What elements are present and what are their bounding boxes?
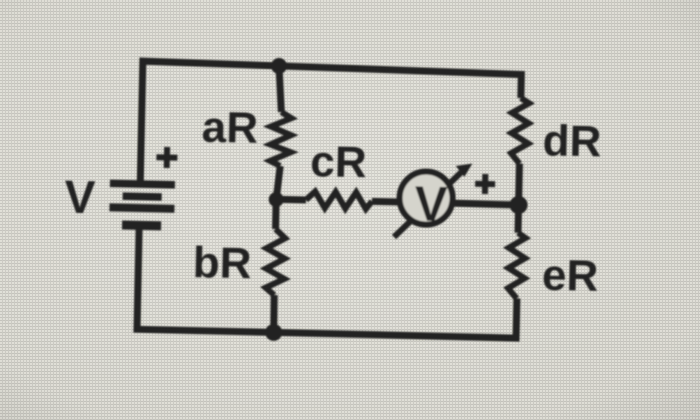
node top (middle branch / top wire junction) — [271, 58, 287, 74]
resistor eR — [508, 233, 526, 299]
svg-text:cR: cR — [310, 137, 367, 187]
wire bR to bottom — [273, 295, 274, 332]
wire cR to voltmeter — [372, 198, 399, 206]
svg-text:V: V — [64, 170, 96, 223]
resistor dR — [511, 98, 529, 164]
wire right node to eR — [514, 205, 522, 233]
wire top + left upper + right upper — [140, 61, 521, 189]
wire mid node to cR — [276, 196, 306, 204]
resistor bR — [265, 229, 285, 295]
battery plus sign — [156, 147, 177, 168]
resistor cR — [306, 191, 372, 209]
voltmeter arrowhead — [456, 163, 473, 177]
node mid (bridge left) — [269, 192, 284, 207]
svg-text:V: V — [414, 177, 448, 232]
voltmeter plus sign — [475, 174, 495, 194]
wire bottom + left lower + right lower — [137, 229, 518, 338]
wire dR to right node — [515, 164, 523, 205]
node bottom (middle branch / bottom wire junction) — [265, 324, 282, 341]
voltmeter needle — [394, 171, 461, 239]
svg-text:bR: bR — [192, 238, 252, 288]
node right (bridge right) — [509, 196, 527, 214]
wire voltmeter to right node — [452, 203, 519, 205]
wire middle branch upper lead — [278, 66, 282, 112]
svg-text:aR: aR — [201, 102, 258, 152]
wire aR to mid node — [276, 166, 280, 200]
svg-text:eR: eR — [541, 251, 598, 301]
resistor aR — [270, 112, 292, 166]
wire mid node to bR — [272, 200, 280, 230]
voltmeter circle — [399, 171, 453, 225]
svg-text:dR: dR — [542, 116, 602, 166]
battery V source — [109, 183, 175, 226]
